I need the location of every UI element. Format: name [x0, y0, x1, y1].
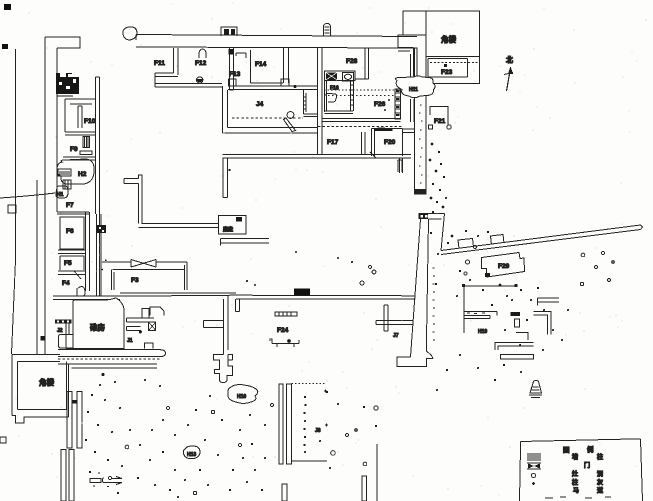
- svg-text:F6: F6: [66, 228, 74, 235]
- room F20: [370, 129, 403, 159]
- tick dots along wall east side: [433, 268, 436, 340]
- room J2: [55, 319, 73, 348]
- svg-text:马: 马: [573, 487, 579, 495]
- svg-text:图: 图: [563, 445, 570, 454]
- wall H19 east L: [534, 311, 551, 334]
- pit H10: [228, 385, 258, 404]
- room F13: [229, 53, 247, 86]
- postholes southwest field: [85, 379, 266, 498]
- svg-text:柱: 柱: [597, 453, 603, 461]
- dotted line J8 north: [292, 383, 326, 385]
- posthole column J8: [303, 396, 306, 453]
- svg-text:H13: H13: [187, 452, 196, 458]
- svg-text:例: 例: [587, 445, 594, 454]
- wall stub west of long wall: [403, 129, 415, 133]
- room F3: [101, 260, 187, 291]
- wall divider under F6: [58, 250, 85, 254]
- svg-text:J7: J7: [393, 333, 399, 339]
- chimney A on top wall: [221, 27, 237, 36]
- svg-text:F28: F28: [346, 58, 358, 65]
- wall H19 bar west: [464, 311, 497, 318]
- wall H19 small bar: [510, 312, 520, 316]
- pit H2: [57, 159, 94, 184]
- wall divider under F10: [65, 132, 95, 135]
- room F16 south walls: [325, 81, 354, 114]
- wall hatched block: [56, 73, 79, 96]
- wall L stub: [124, 175, 142, 184]
- svg-text:柱: 柱: [572, 479, 578, 487]
- wall strip J8 bottom: [282, 484, 287, 501]
- wall left drop from mid band: [223, 158, 228, 198]
- svg-text:F13: F13: [229, 71, 241, 78]
- wall section2 vertical pair: [411, 219, 429, 357]
- black block on east wall: [97, 225, 106, 233]
- svg-text:门: 门: [584, 462, 590, 470]
- svg-text:F3: F3: [131, 277, 139, 284]
- structure J7 cross: [376, 305, 414, 339]
- svg-text:F11: F11: [154, 60, 165, 67]
- chimney B on top wall: [324, 24, 331, 37]
- room F10: [65, 99, 96, 132]
- svg-text:北: 北: [506, 55, 513, 64]
- svg-text:F26: F26: [374, 101, 386, 108]
- tower south rooms F23: [426, 57, 480, 84]
- svg-text:角楼: 角楼: [441, 34, 456, 44]
- wall F17/F20 north band: [322, 119, 401, 132]
- wall main west double with top hook: [45, 37, 80, 355]
- svg-text:角楼: 角楼: [39, 377, 54, 387]
- black mark top-left corner: [4, 4, 11, 10]
- wall strips J8 west: [279, 384, 291, 464]
- pit H11: [395, 76, 435, 98]
- small circles near F29: [464, 246, 477, 276]
- room J4: [223, 85, 319, 133]
- corner tower SW: [12, 355, 68, 423]
- room F4 with door: [62, 271, 85, 296]
- wall dashed corridor line: [324, 89, 411, 91]
- svg-text:F10: F10: [84, 118, 96, 125]
- pit H1: [56, 186, 68, 198]
- svg-text:J8: J8: [315, 428, 321, 434]
- wall diagonal long double: [441, 214, 643, 255]
- svg-text:H11: H11: [409, 87, 418, 93]
- wall L horizontal to mill: [139, 224, 219, 228]
- wall long south: [236, 295, 416, 299]
- svg-text:F21: F21: [434, 118, 446, 125]
- room F9: [70, 137, 92, 155]
- wall mid band y155: [223, 155, 412, 159]
- svg-text:F14: F14: [255, 61, 267, 68]
- wall F14 east double: [281, 48, 289, 87]
- svg-text:道: 道: [597, 487, 603, 495]
- svg-text:碓房: 碓房: [90, 322, 105, 332]
- pit H13: [183, 446, 200, 459]
- wall section2 top with dark cap: [419, 214, 445, 220]
- wall H19 south bar: [501, 355, 534, 360]
- wall stub west at y320: [204, 321, 224, 328]
- wall J1-east foot castellated: [214, 355, 233, 383]
- wall F17/F20 divider: [362, 132, 366, 155]
- svg-text:墙: 墙: [572, 453, 578, 461]
- wire outer west line: [12, 49, 16, 354]
- wall H19 small L2: [516, 333, 528, 340]
- posthole dot under J1: [102, 373, 105, 376]
- svg-text:F24: F24: [277, 327, 289, 334]
- wall west line2: [36, 180, 38, 355]
- svg-text:F5: F5: [64, 260, 72, 267]
- wall south band of J1: [58, 350, 166, 357]
- wall H19 west vertical: [463, 284, 465, 333]
- wire thin east: [376, 444, 378, 501]
- room J1 big hall: [73, 298, 124, 349]
- wall long east vertical: [414, 48, 427, 195]
- black mark on west wall: [41, 336, 46, 341]
- room F28: [346, 48, 369, 80]
- wall south band 2: [58, 364, 157, 368]
- svg-text:F16: F16: [330, 86, 339, 92]
- svg-text:H1: H1: [57, 192, 64, 198]
- wall divider under F9: [63, 157, 95, 160]
- node west stub: [8, 205, 16, 213]
- wall under F11: [155, 84, 222, 88]
- wall section2 foot: [397, 340, 433, 367]
- wall F12/F13 divider: [229, 48, 235, 90]
- room F21: [429, 107, 452, 130]
- wall dashed line in F17/F20: [318, 126, 402, 128]
- room F6: [60, 217, 84, 249]
- post block above H1: [63, 180, 71, 189]
- svg-text:磨盘: 磨盘: [222, 226, 233, 233]
- posthole dot near wall: [228, 169, 230, 171]
- corner tower NE: [426, 11, 480, 57]
- wall dashed row: [58, 358, 160, 360]
- wall J1 north band: [120, 293, 236, 296]
- small bars near bottom: [90, 473, 122, 487]
- node blob west end of top wall: [123, 27, 137, 40]
- tower east edge down: [426, 57, 480, 85]
- posthole dots below F21: [429, 143, 445, 191]
- wall H19 north bar east: [538, 298, 559, 306]
- wall east boundary x411: [411, 54, 415, 122]
- svg-text:H2: H2: [78, 171, 87, 178]
- wall J1-east vertical pair: [224, 295, 229, 355]
- wall F6 east double: [86, 212, 90, 291]
- svg-text:F7: F7: [66, 202, 74, 209]
- svg-text:F12: F12: [195, 60, 207, 67]
- tower annex: [398, 11, 426, 48]
- postholes east court: [430, 230, 569, 391]
- svg-text:J2: J2: [57, 328, 63, 334]
- room F29: [482, 253, 525, 278]
- wall hook below south wall: [236, 299, 240, 312]
- wall H19 north line: [462, 284, 518, 287]
- wire line to H1 from west edge: [0, 193, 55, 198]
- machinery in J1 court: [127, 307, 164, 348]
- svg-text:J1: J1: [127, 338, 133, 344]
- svg-text:H19: H19: [478, 329, 487, 335]
- room F12 arc: [195, 49, 207, 83]
- posthole dots below wall end: [430, 197, 447, 213]
- bench icon under F24: [270, 339, 299, 347]
- dots J8 area: [319, 391, 377, 469]
- postholes courtyard mid: [360, 266, 376, 286]
- room F11: [154, 48, 178, 87]
- post on diagonal A: [458, 239, 474, 249]
- post on diagonal B: [491, 235, 505, 245]
- black mark left edge: [2, 44, 8, 49]
- wall right drop from mid band: [400, 158, 403, 173]
- svg-text:F23: F23: [441, 69, 453, 76]
- wall strip east bottom: [362, 476, 367, 501]
- svg-text:F9: F9: [70, 146, 78, 153]
- wall inner pair east: [97, 214, 102, 296]
- svg-text:J4: J4: [256, 101, 264, 108]
- node small mark west edge: [0, 437, 6, 443]
- bench shape in F16: [326, 94, 337, 102]
- wall divider under F7: [57, 212, 89, 214]
- wall J8 south line: [292, 460, 328, 462]
- wall east double of column: [96, 77, 100, 296]
- wall top band: [136, 35, 417, 49]
- circles J8 area: [331, 406, 378, 466]
- room F16 dark hearth walls: [325, 71, 356, 92]
- room F26: [374, 99, 390, 111]
- wall H19 tiny vertical: [515, 319, 520, 327]
- north arrow: [504, 55, 513, 91]
- svg-text:F29: F29: [498, 263, 510, 270]
- wall strips below SW tower: [61, 391, 82, 501]
- wall bottom band of column: [53, 296, 120, 300]
- wall hatched east of F26: [395, 89, 401, 119]
- svg-text:F20: F20: [384, 139, 396, 146]
- wall H19 south L: [495, 342, 534, 350]
- room mill (mopan): [219, 216, 247, 235]
- room F5: [60, 256, 84, 270]
- circles far east: [580, 251, 614, 285]
- small loops southwest field: [108, 404, 273, 495]
- svg-text:F4: F4: [62, 280, 70, 287]
- svg-text:洞: 洞: [597, 470, 603, 478]
- wall divider under F5: [58, 271, 85, 275]
- wall west of F23: [398, 48, 417, 77]
- svg-text:H10: H10: [237, 394, 246, 400]
- ruler bar: [275, 312, 297, 316]
- svg-text:灶: 灶: [572, 470, 578, 478]
- svg-text:灰: 灰: [597, 479, 603, 487]
- bell shaped stone: [529, 380, 542, 397]
- wall long vertical x318: [318, 48, 323, 155]
- wall L vertical: [139, 184, 143, 225]
- wall below mill: [221, 239, 270, 246]
- wall stub lower: [398, 160, 402, 172]
- black block on south wall: [294, 289, 310, 296]
- room F14: [251, 50, 284, 83]
- svg-text:F17: F17: [327, 139, 339, 146]
